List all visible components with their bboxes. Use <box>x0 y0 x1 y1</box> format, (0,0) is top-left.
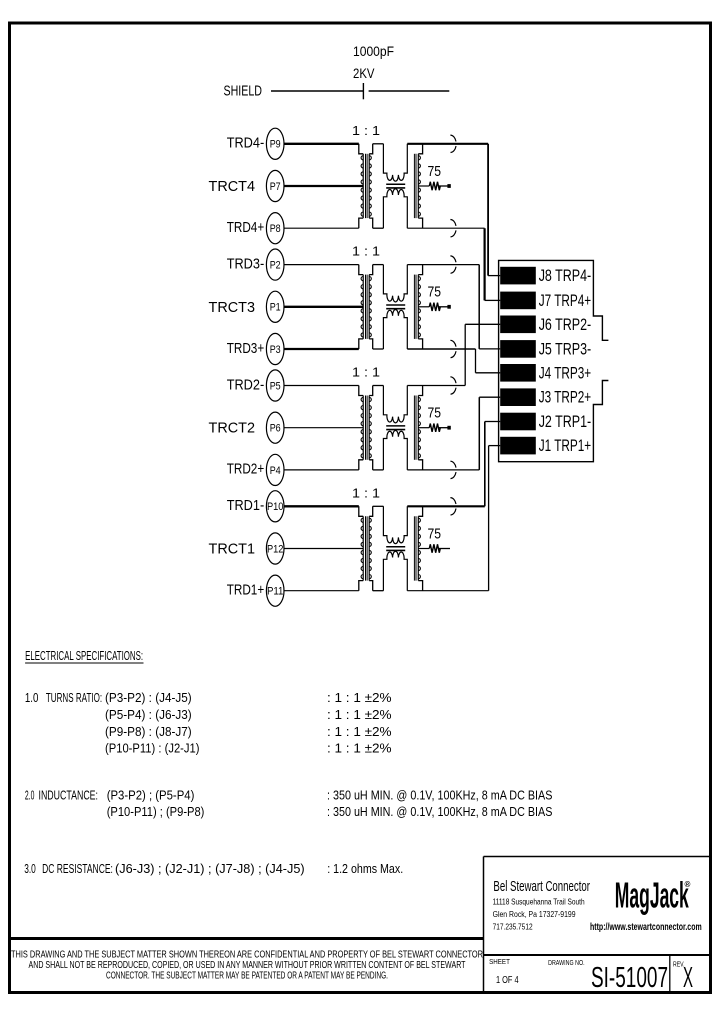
wire J4 pin stub <box>476 372 501 374</box>
note 1.0 TURNS RATIO <box>25 690 392 756</box>
svg-text:J7 TRP4+: J7 TRP4+ <box>539 291 592 310</box>
junction dot shield node 4 <box>447 184 450 188</box>
wire T3 secondary bottom to choke L3 <box>373 348 384 350</box>
svg-text:J5 TRP3-: J5 TRP3- <box>539 339 592 358</box>
wire T1 secondary top to choke L1 <box>373 505 384 507</box>
wire A4 center tap to R4 <box>418 185 429 187</box>
svg-text:: 1.2 ohms Max.: : 1.2 ohms Max. <box>327 861 403 876</box>
wire P10 to T1 primary top <box>284 505 359 507</box>
svg-text:P9: P9 <box>270 139 281 151</box>
pin P11 (TRD1+) <box>266 575 284 606</box>
wire J8 bus vertical <box>487 144 489 276</box>
wire T2 secondary top to choke L2 <box>373 385 384 387</box>
wire T3 output+ to J5 bus <box>407 264 479 266</box>
common-mode choke L4 <box>383 144 407 228</box>
wire P3 to T3 primary bottom <box>284 348 359 350</box>
svg-text:(P9-P8) : (J8-J7): (P9-P8) : (J8-J7) <box>105 724 192 739</box>
wire J5 bus vertical <box>478 265 480 349</box>
channel T3 group <box>209 244 451 365</box>
wire crossover hop 2 on shield bus <box>450 220 456 237</box>
svg-text:(P3-P2) : (J4-J5): (P3-P2) : (J4-J5) <box>105 690 192 705</box>
svg-text:: 1 : 1 ±2%: : 1 : 1 ±2% <box>327 707 392 722</box>
wire J3 bus vertical <box>478 397 480 470</box>
svg-text:: 1 : 1 ±2%: : 1 : 1 ±2% <box>327 741 392 756</box>
wire P11 to T1 primary bottom <box>284 590 359 592</box>
wire J2 bus vertical <box>484 422 486 507</box>
svg-text:TRD3+: TRD3+ <box>227 340 265 357</box>
wire T4 output- to J7 bus <box>407 227 484 229</box>
wire T3 secondary top to choke L3 <box>373 264 384 266</box>
svg-text:P8: P8 <box>270 223 281 235</box>
svg-text:1000pF: 1000pF <box>353 43 394 59</box>
pin P7 (TRCT4) <box>266 170 284 201</box>
svg-text:(P3-P2) ; (P5-P4): (P3-P2) ; (P5-P4) <box>107 788 195 803</box>
pin P12 (TRCT1) <box>266 533 284 564</box>
svg-text:P4: P4 <box>270 465 281 477</box>
svg-text:P10: P10 <box>267 501 284 513</box>
wire R2 to shield node <box>438 427 447 429</box>
wire J5 pin stub <box>479 348 500 350</box>
svg-text:P11: P11 <box>267 586 284 598</box>
svg-text:11118 Susquehanna Trail South: 11118 Susquehanna Trail South <box>493 898 585 907</box>
svg-text:P3: P3 <box>270 344 281 356</box>
pin P9 (TRD4-) <box>266 128 284 159</box>
wire J4 bus vertical <box>475 349 477 373</box>
pin P10 (TRD1-) <box>266 491 284 522</box>
svg-text:J6 TRP2-: J6 TRP2- <box>539 315 592 334</box>
svg-text:: 350 uH MIN. @ 0.1V, 100KHz,: : 350 uH MIN. @ 0.1V, 100KHz, 8 mA DC BI… <box>327 804 553 819</box>
center-tapped winding A3 <box>414 265 422 349</box>
pin P1 (TRCT3) <box>266 291 284 322</box>
connector pin J1 contact pad <box>500 437 536 455</box>
svg-text:2.0: 2.0 <box>25 788 35 803</box>
svg-text:THIS DRAWING AND THE SUBJECT M: THIS DRAWING AND THE SUBJECT MATTER SHOW… <box>11 950 483 961</box>
connector pin J5 contact pad <box>500 340 536 358</box>
svg-text:3.0: 3.0 <box>24 861 36 876</box>
wire J2 pin stub <box>485 421 501 423</box>
connector pin J6 contact pad <box>500 316 536 334</box>
wire J1 bus vertical <box>488 446 490 591</box>
wire R1 to shield node <box>438 548 450 550</box>
svg-text:(P10-P11) : (J2-J1): (P10-P11) : (J2-J1) <box>105 741 200 756</box>
svg-text:CONNECTOR. THE SUBJECT MATTER: CONNECTOR. THE SUBJECT MATTER MAY BE PAT… <box>106 971 388 982</box>
wire T1 output+ to J2 bus <box>407 505 485 507</box>
connector pin J8 contact pad <box>500 267 536 285</box>
svg-text:AND SHALL NOT BE REPRODUCED, C: AND SHALL NOT BE REPRODUCED, COPIED, OR … <box>29 960 466 971</box>
title block outline <box>484 857 711 993</box>
connector pin J2 contact pad <box>500 413 536 431</box>
svg-text:J1 TRP1+: J1 TRP1+ <box>539 436 592 455</box>
svg-text:TURNS RATIO:: TURNS RATIO: <box>46 690 102 705</box>
svg-text:: 1 : 1 ±2%: : 1 : 1 ±2% <box>327 690 392 705</box>
wire R4 to shield node <box>438 185 447 187</box>
wire R3 to shield node <box>438 306 447 308</box>
wire T4 secondary top to choke L4 <box>373 143 384 145</box>
wire crossover hop 1 on shield bus <box>450 135 456 152</box>
svg-text:ELECTRICAL SPECIFICATIONS:: ELECTRICAL SPECIFICATIONS: <box>25 649 143 663</box>
pin P2 (TRD3-) <box>266 249 284 280</box>
svg-text:717.235.7512: 717.235.7512 <box>493 923 533 932</box>
connector pin J7 contact pad <box>500 292 536 310</box>
wire P12 to T1 primary center tap <box>284 548 363 550</box>
svg-text:1 : 1: 1 : 1 <box>352 123 380 138</box>
wire T2 output+ to J6 bus <box>407 385 465 387</box>
svg-text:Bel Stewart Connector: Bel Stewart Connector <box>493 878 590 895</box>
center-tapped winding A2 <box>414 386 422 470</box>
junction dot shield node 3 <box>447 305 450 309</box>
junction dot shield node 2 <box>447 426 450 430</box>
wire SHIELD to C1 <box>271 90 363 92</box>
note 3.0 DC RESISTANCE <box>24 861 403 876</box>
transformer T2 <box>359 386 373 470</box>
svg-text:http://www.stewartconnector.co: http://www.stewartconnector.com <box>590 921 702 933</box>
svg-text:75: 75 <box>428 405 442 422</box>
transformer T4 <box>359 144 373 228</box>
resistor R1 75 ohm <box>429 544 440 552</box>
svg-text:P2: P2 <box>270 260 281 272</box>
wire P7 to T4 primary center tap <box>284 185 363 187</box>
svg-text:1 : 1: 1 : 1 <box>352 244 380 259</box>
svg-text:(P5-P4) : (J6-J3): (P5-P4) : (J6-J3) <box>105 707 192 722</box>
company name and address <box>493 878 590 932</box>
svg-text:SHIELD: SHIELD <box>224 83 263 100</box>
wire crossover hop 6 on shield bus <box>450 461 456 478</box>
svg-text:DRAWING NO.: DRAWING NO. <box>548 960 585 967</box>
svg-text:J8 TRP4-: J8 TRP4- <box>539 266 592 285</box>
svg-text:J3 TRP2+: J3 TRP2+ <box>539 388 592 407</box>
wire T1 secondary bottom to choke L1 <box>373 590 384 592</box>
wire A2 center tap to R2 <box>418 427 429 429</box>
svg-text:1 OF 4: 1 OF 4 <box>496 975 519 986</box>
wire crossover hop 4 on shield bus <box>450 340 456 357</box>
wire T4 output+ to J8 bus <box>407 143 488 145</box>
svg-text:TRD4-: TRD4- <box>227 135 265 152</box>
svg-text:: 1 : 1 ±2%: : 1 : 1 ±2% <box>327 724 392 739</box>
resistor R3 75 ohm <box>429 303 440 311</box>
svg-text:P12: P12 <box>267 543 284 555</box>
wire T1 output- to J1 bus <box>407 590 488 592</box>
svg-text:1 : 1: 1 : 1 <box>352 485 380 500</box>
disclaimer box top line <box>10 937 484 940</box>
wire crossover hop 7 on shield bus <box>450 498 456 515</box>
svg-text:1.0: 1.0 <box>25 690 39 705</box>
svg-text:75: 75 <box>428 284 442 301</box>
note 2.0 INDUCTANCE <box>25 788 553 820</box>
svg-text:SHEET: SHEET <box>489 959 510 966</box>
sheet / drawing number row <box>489 959 693 994</box>
pin P6 (TRCT2) <box>266 412 284 443</box>
wire crossover hop 3 on shield bus <box>450 256 456 273</box>
connector J1 RJ45 jack outline <box>499 260 609 461</box>
common-mode choke L3 <box>383 265 407 349</box>
MagJack logo <box>615 875 691 916</box>
wire P6 to T2 primary center tap <box>284 427 363 429</box>
svg-text:: 350 uH MIN. @ 0.1V, 100KHz,: : 350 uH MIN. @ 0.1V, 100KHz, 8 mA DC BI… <box>327 788 553 803</box>
wire A3 center tap to R3 <box>418 306 429 308</box>
center-tapped winding A1 <box>414 506 422 590</box>
wire crossover hop 5 on shield bus <box>450 377 456 394</box>
common-mode choke L1 <box>383 506 407 590</box>
svg-text:P7: P7 <box>270 181 281 193</box>
common-mode choke L2 <box>383 386 407 470</box>
wire A1 center tap to R1 <box>418 548 429 550</box>
pin P5 (TRD2-) <box>266 370 284 401</box>
wire T2 secondary bottom to choke L2 <box>373 469 384 471</box>
svg-text:TRD3-: TRD3- <box>227 255 265 272</box>
svg-text:P6: P6 <box>270 423 281 435</box>
svg-text:J2 TRP1-: J2 TRP1- <box>539 412 592 431</box>
wire T3 output- to J4 bus <box>407 348 475 350</box>
svg-text:SI-51007: SI-51007 <box>591 962 668 994</box>
svg-text:(P10-P11) ; (P9-P8): (P10-P11) ; (P9-P8) <box>107 804 205 819</box>
svg-text:J4 TRP3+: J4 TRP3+ <box>539 363 592 382</box>
svg-text:2KV: 2KV <box>353 65 375 81</box>
wire J1 pin stub <box>489 445 501 447</box>
wire T2 output- to J3 bus <box>407 469 479 471</box>
connector pin J3 contact pad <box>500 388 536 406</box>
svg-text:1 : 1: 1 : 1 <box>352 365 380 380</box>
pin P8 (TRD4+) <box>266 213 284 244</box>
channel T1 group <box>209 485 451 606</box>
channel T2 group <box>209 365 451 486</box>
wire J7 bus vertical <box>484 228 486 300</box>
svg-text:75: 75 <box>428 525 442 542</box>
transformer T1 <box>359 506 373 590</box>
svg-text:TRCT3: TRCT3 <box>209 299 256 316</box>
capacitor C1 1000pF 2KV <box>353 43 449 99</box>
resistor R4 75 ohm <box>429 182 440 190</box>
svg-text:MagJack: MagJack <box>615 875 689 916</box>
svg-text:®: ® <box>685 880 691 889</box>
wire J6 pin stub <box>465 323 500 325</box>
transformer T3 <box>359 265 373 349</box>
wire J8 pin stub <box>488 275 500 277</box>
disclaimer text <box>11 950 483 982</box>
svg-text:TRD1+: TRD1+ <box>227 582 265 599</box>
svg-text:INDUCTANCE:: INDUCTANCE: <box>39 788 99 803</box>
wire P8 to T4 primary bottom <box>284 227 359 229</box>
wire T4 secondary bottom to choke L4 <box>373 227 384 229</box>
pin P4 (TRD2+) <box>266 454 284 485</box>
svg-text:TRCT1: TRCT1 <box>209 541 256 558</box>
connector pin J4 contact pad <box>500 364 536 382</box>
channel T4 group <box>209 123 451 244</box>
svg-text:TRCT2: TRCT2 <box>209 420 256 437</box>
resistor R2 75 ohm <box>429 424 440 432</box>
wire P4 to T2 primary bottom <box>284 469 359 471</box>
wire P2 to T3 primary top <box>284 264 359 266</box>
svg-text:TRD2+: TRD2+ <box>227 461 265 478</box>
svg-text:P5: P5 <box>270 380 281 392</box>
heading ELECTRICAL SPECIFICATIONS <box>25 649 143 663</box>
svg-text:TRCT4: TRCT4 <box>209 178 256 195</box>
wire P5 to T2 primary top <box>284 385 359 387</box>
wire J6 bus vertical <box>464 324 466 385</box>
center-tapped winding A4 <box>414 144 422 228</box>
svg-text:(J6-J3) ; (J2-J1) ; (J7-J8) ;: (J6-J3) ; (J2-J1) ; (J7-J8) ; (J4-J5) <box>115 861 305 876</box>
wire P1 to T3 primary center tap <box>284 306 363 308</box>
svg-text:TRD2-: TRD2- <box>227 376 265 393</box>
svg-text:TRD4+: TRD4+ <box>227 219 265 236</box>
pin P3 (TRD3+) <box>266 333 284 364</box>
svg-text:75: 75 <box>428 163 442 180</box>
svg-text:Glen Rock, Pa 17327-9199: Glen Rock, Pa 17327-9199 <box>493 910 576 919</box>
svg-text:DC RESISTANCE:: DC RESISTANCE: <box>42 861 113 876</box>
svg-text:X: X <box>683 962 693 994</box>
svg-text:TRD1-: TRD1- <box>227 497 265 514</box>
wire J3 pin stub <box>479 396 500 398</box>
wire J7 pin stub <box>485 299 501 301</box>
svg-text:P1: P1 <box>270 302 281 314</box>
wire P9 to T4 primary top <box>284 143 359 145</box>
